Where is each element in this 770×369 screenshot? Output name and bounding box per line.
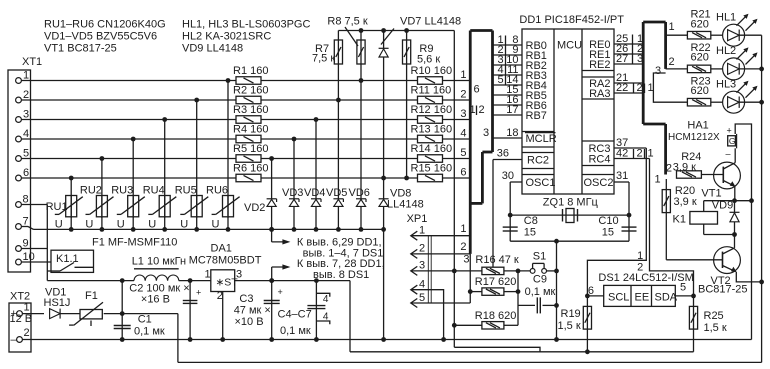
svg-text:10: 10 [23, 251, 35, 263]
svg-text:3: 3 [419, 260, 425, 272]
svg-text:1: 1 [470, 104, 476, 116]
svg-text:5,6 к: 5,6 к [417, 53, 440, 65]
svg-text:U: U [117, 219, 125, 231]
svg-text:4: 4 [460, 128, 466, 140]
svg-text:R6 160: R6 160 [233, 163, 268, 175]
svg-text:2: 2 [217, 290, 223, 302]
svg-text:RU4: RU4 [143, 185, 165, 197]
svg-text:HL2: HL2 [716, 45, 736, 57]
svg-text:9: 9 [23, 238, 29, 250]
svg-text:5: 5 [23, 148, 29, 160]
svg-text:VD9: VD9 [712, 200, 733, 212]
svg-text:47 мк ×: 47 мк × [234, 305, 271, 317]
svg-text:R13 160: R13 160 [411, 124, 453, 136]
svg-text:XT1: XT1 [22, 56, 42, 68]
svg-text:RA3: RA3 [589, 88, 610, 100]
svg-text:2: 2 [666, 163, 672, 175]
svg-text:1: 1 [460, 69, 466, 81]
svg-text:3,9 к: 3,9 к [674, 196, 697, 208]
svg-text:VD3: VD3 [282, 187, 303, 199]
svg-text:RU1–RU6 CN1206K40G: RU1–RU6 CN1206K40G [44, 19, 166, 31]
svg-text:MCLR: MCLR [526, 133, 557, 145]
svg-text:+: + [727, 126, 732, 136]
svg-text:1: 1 [648, 82, 654, 94]
svg-text:HL2 KA-3021SRC: HL2 KA-3021SRC [182, 31, 271, 43]
svg-text:0,1 мк: 0,1 мк [525, 286, 556, 298]
svg-text:G: G [729, 136, 736, 146]
svg-text:VD2: VD2 [244, 202, 265, 214]
svg-text:1: 1 [637, 250, 643, 262]
svg-text:R1 160: R1 160 [233, 65, 268, 77]
svg-text:C10: C10 [598, 215, 618, 227]
svg-text:2: 2 [479, 104, 485, 116]
svg-text:VT1: VT1 [701, 188, 721, 200]
svg-text:3: 3 [236, 269, 242, 281]
svg-text:HL1, HL3 BL-LS0603PGC: HL1, HL3 BL-LS0603PGC [182, 19, 310, 31]
svg-text:1: 1 [419, 225, 425, 237]
svg-text:+: + [278, 287, 283, 297]
svg-text:R10 160: R10 160 [411, 65, 453, 77]
svg-text:выв. 8 DS1: выв. 8 DS1 [313, 269, 369, 281]
svg-text:0,1 мк: 0,1 мк [134, 326, 165, 338]
svg-text:36: 36 [497, 148, 509, 160]
svg-text:MCU: MCU [557, 40, 582, 52]
svg-text:5: 5 [460, 147, 466, 159]
svg-text:VD6: VD6 [349, 187, 370, 199]
svg-text:1,5 к: 1,5 к [704, 322, 727, 334]
svg-text:22: 22 [616, 82, 628, 94]
svg-text:S1: S1 [533, 251, 546, 263]
svg-text:RU5: RU5 [175, 185, 197, 197]
svg-text:R16 47 к: R16 47 к [475, 254, 519, 266]
svg-text:R15 160: R15 160 [411, 163, 453, 175]
svg-text:1: 1 [24, 302, 30, 314]
svg-text:–: – [726, 149, 731, 159]
svg-text:620: 620 [691, 19, 709, 31]
svg-text:6: 6 [23, 167, 29, 179]
svg-text:RU6: RU6 [206, 185, 228, 197]
svg-text:HL1: HL1 [716, 12, 736, 24]
svg-text:3: 3 [23, 109, 29, 121]
svg-text:U: U [55, 219, 63, 231]
svg-text:2: 2 [24, 327, 30, 339]
svg-text:1: 1 [23, 70, 29, 82]
svg-text:DD1 PIC18F452-I/PT: DD1 PIC18F452-I/PT [519, 14, 624, 26]
svg-text:2: 2 [669, 56, 675, 68]
svg-text:U: U [148, 219, 156, 231]
svg-text:L1 10 мкГн: L1 10 мкГн [132, 256, 186, 268]
svg-text:R25: R25 [704, 310, 724, 322]
svg-text:SDA: SDA [655, 291, 678, 303]
svg-text:C9: C9 [533, 274, 547, 286]
svg-text:ZQ1 8 МГц: ZQ1 8 МГц [543, 197, 599, 209]
svg-text:R17 620: R17 620 [475, 276, 517, 288]
svg-text:VD7 LL4148: VD7 LL4148 [400, 16, 461, 28]
svg-text:1: 1 [655, 174, 661, 186]
svg-text:15: 15 [524, 227, 536, 239]
svg-text:SCL: SCL [608, 291, 629, 303]
svg-text:HA1: HA1 [687, 120, 708, 132]
svg-text:RU3: RU3 [111, 185, 133, 197]
svg-text:RU1: RU1 [46, 201, 68, 213]
svg-text:3: 3 [483, 127, 489, 139]
svg-text:U: U [212, 219, 220, 231]
svg-text:2: 2 [637, 262, 643, 274]
svg-text:–: – [11, 334, 18, 346]
svg-text:5: 5 [680, 282, 686, 294]
svg-text:R2 160: R2 160 [233, 85, 268, 97]
svg-text:K1: K1 [673, 214, 686, 226]
svg-text:XP1: XP1 [407, 213, 428, 225]
svg-text:EE: EE [635, 291, 650, 303]
svg-text:VT1 BC817-25: VT1 BC817-25 [44, 43, 117, 55]
svg-text:3: 3 [460, 108, 466, 120]
svg-text:C8: C8 [524, 215, 538, 227]
svg-text:VD4: VD4 [304, 187, 325, 199]
svg-text:2: 2 [460, 241, 466, 253]
svg-text:U: U [180, 219, 188, 231]
svg-text:620: 620 [691, 85, 709, 97]
svg-text:12 В: 12 В [10, 313, 33, 325]
svg-text:R5 160: R5 160 [233, 143, 268, 155]
svg-text:R12 160: R12 160 [411, 104, 453, 116]
svg-text:R4 160: R4 160 [233, 124, 268, 136]
svg-text:4: 4 [323, 294, 329, 305]
svg-text:HCM1212X: HCM1212X [668, 132, 720, 143]
svg-text:OSC2: OSC2 [584, 177, 614, 189]
svg-text:6: 6 [474, 84, 480, 96]
svg-text:C1: C1 [138, 314, 152, 326]
svg-text:5: 5 [419, 292, 425, 304]
svg-text:RU2: RU2 [80, 185, 102, 197]
svg-text:U: U [85, 219, 93, 231]
svg-text:∗ST: ∗ST [216, 277, 239, 289]
svg-text:2: 2 [460, 89, 466, 101]
svg-text:27: 27 [616, 53, 628, 65]
svg-text:C3: C3 [239, 293, 253, 305]
svg-text:4: 4 [23, 128, 29, 140]
svg-text:1: 1 [669, 21, 675, 33]
svg-text:F1 MF-MSMF110: F1 MF-MSMF110 [92, 237, 177, 249]
svg-text:RE2: RE2 [589, 59, 610, 71]
svg-text:7: 7 [23, 216, 29, 228]
svg-text:1: 1 [648, 147, 654, 159]
svg-text:OSC1: OSC1 [526, 177, 556, 189]
svg-text:K1.1: K1.1 [56, 253, 79, 265]
svg-text:31: 31 [616, 170, 628, 182]
svg-text:2: 2 [23, 89, 29, 101]
svg-text:5: 5 [498, 74, 504, 86]
svg-text:1: 1 [460, 223, 466, 235]
svg-text:6: 6 [460, 167, 466, 179]
svg-text:3: 3 [655, 65, 661, 77]
svg-text:0,1 мк: 0,1 мк [280, 325, 311, 337]
svg-text:VD5: VD5 [326, 187, 347, 199]
svg-text:+: + [196, 288, 201, 298]
svg-text:17: 17 [506, 104, 518, 116]
svg-text:BC817-25: BC817-25 [698, 283, 748, 295]
svg-text:620: 620 [691, 52, 709, 64]
svg-text:C4–C7: C4–C7 [278, 309, 312, 321]
svg-text:42: 42 [616, 147, 628, 159]
svg-text:8: 8 [23, 194, 29, 206]
svg-text:R11 160: R11 160 [411, 85, 452, 97]
svg-text:RC2: RC2 [527, 154, 549, 166]
svg-text:HL3: HL3 [716, 79, 736, 91]
svg-text:18: 18 [506, 127, 518, 139]
svg-text:R14 160: R14 160 [411, 143, 453, 155]
svg-text:1: 1 [205, 269, 211, 281]
svg-text:2: 2 [637, 82, 643, 94]
svg-text:×10 В: ×10 В [235, 316, 264, 328]
svg-text:7,5 к: 7,5 к [312, 52, 335, 64]
svg-text:1,5 к: 1,5 к [558, 320, 581, 332]
svg-text:LL4148: LL4148 [387, 198, 424, 210]
svg-text:R19: R19 [561, 308, 581, 320]
svg-text:VD9 LL4148: VD9 LL4148 [182, 43, 243, 55]
svg-text:VD1–VD5 BZV55C5V6: VD1–VD5 BZV55C5V6 [44, 31, 157, 43]
svg-text:2: 2 [419, 243, 425, 255]
svg-text:30: 30 [502, 170, 514, 182]
svg-text:R8 7,5 к: R8 7,5 к [327, 16, 367, 28]
svg-text:4: 4 [419, 279, 425, 291]
svg-text:HS1J: HS1J [44, 297, 71, 309]
svg-text:RB7: RB7 [526, 110, 547, 122]
svg-text:R18 620: R18 620 [475, 310, 517, 322]
svg-text:DA1: DA1 [211, 243, 232, 255]
svg-text:4: 4 [323, 311, 329, 322]
svg-text:15: 15 [602, 227, 614, 239]
svg-text:2: 2 [637, 147, 643, 159]
svg-text:MC78M05BDT: MC78M05BDT [189, 255, 262, 267]
svg-text:3: 3 [463, 254, 469, 266]
svg-text:RC4: RC4 [588, 153, 610, 165]
svg-text:×16 В: ×16 В [141, 294, 170, 306]
svg-text:R3 160: R3 160 [233, 104, 268, 116]
svg-text:F1: F1 [85, 290, 98, 302]
